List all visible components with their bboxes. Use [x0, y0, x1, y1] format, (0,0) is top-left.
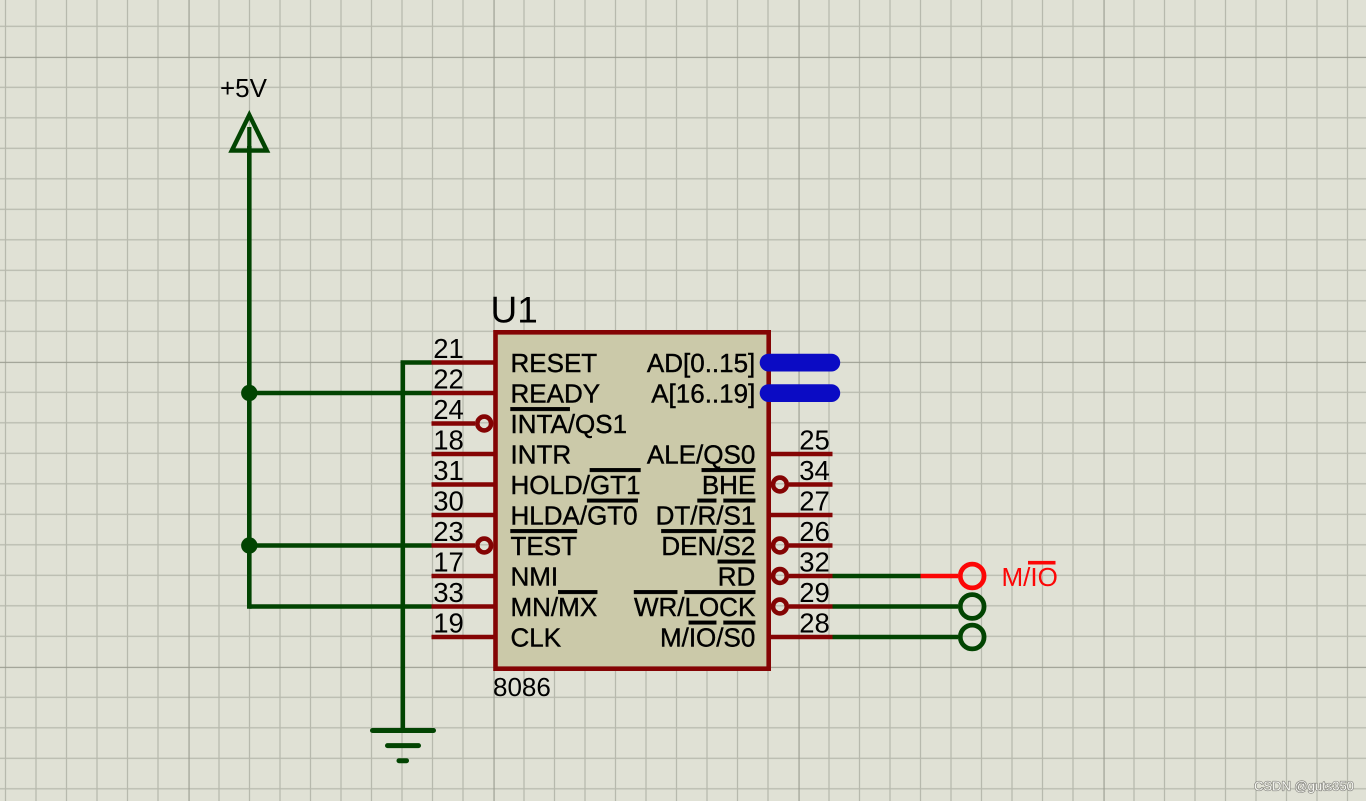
svg-text:MN/MX: MN/MX	[511, 592, 598, 622]
wire RD green segment	[833, 574, 921, 579]
svg-text:A[16..19]: A[16..19]	[651, 379, 755, 409]
pin 27 DT/R stub	[770, 513, 833, 518]
svg-text:30: 30	[433, 486, 464, 517]
terminal green ring pin 29	[960, 595, 984, 619]
svg-text:TEST: TEST	[511, 531, 578, 561]
svg-text:CLK: CLK	[511, 623, 562, 653]
svg-text:WR/LOCK: WR/LOCK	[634, 592, 756, 622]
svg-text:RESET: RESET	[511, 348, 598, 378]
svg-text:22: 22	[433, 364, 464, 395]
svg-text:24: 24	[433, 394, 464, 425]
svg-text:26: 26	[799, 516, 830, 547]
pin 34 BHE stub with bubble	[773, 478, 787, 492]
power +5V symbol	[232, 115, 267, 151]
ground	[373, 731, 434, 761]
pin 17 NMI stub	[432, 574, 495, 579]
svg-text:DT/R/S1: DT/R/S1	[656, 501, 756, 531]
svg-text:17: 17	[433, 547, 464, 578]
svg-text:HOLD/GT1: HOLD/GT1	[511, 470, 641, 500]
wire +5V vertical	[247, 146, 252, 609]
pin 24 INTA stub with bubble	[432, 421, 476, 426]
svg-text:M/IO/S0: M/IO/S0	[660, 623, 755, 653]
svg-text:23: 23	[433, 516, 464, 547]
svg-text:RD: RD	[718, 562, 756, 592]
svg-text:18: 18	[433, 425, 464, 456]
svg-text:34: 34	[799, 455, 830, 486]
pin 22 READY stub	[432, 391, 495, 396]
wire WR/LOCK green	[833, 604, 959, 609]
pin 30 HLDA stub	[432, 513, 495, 518]
pin 29 WR/LOCK stub with bubble	[773, 600, 787, 614]
svg-text:READY: READY	[511, 379, 601, 409]
wire M/IO/S0 green	[833, 635, 959, 640]
pin 31 HOLD stub	[432, 482, 495, 487]
pin 26 DEN stub with bubble	[773, 539, 787, 553]
svg-text:19: 19	[433, 608, 464, 639]
svg-text:HLDA/GT0: HLDA/GT0	[511, 501, 638, 531]
pin 33 MN/MX stub	[432, 604, 495, 609]
pin 23 TEST stub with bubble	[432, 543, 476, 548]
bus stub AD[0..15]	[760, 354, 841, 372]
svg-text:33: 33	[433, 577, 464, 608]
svg-text:27: 27	[799, 486, 830, 517]
wire to TEST pin 23	[249, 543, 431, 548]
pin 21 RESET stub	[432, 360, 495, 365]
wire RESET to ground vertical	[403, 363, 432, 731]
svg-text:25: 25	[799, 425, 830, 456]
chip U1 body 8086	[496, 332, 769, 668]
svg-text:21: 21	[433, 333, 464, 364]
terminal M/IO red ring	[960, 564, 984, 588]
pin 18 INTR stub	[432, 452, 495, 457]
svg-text:INTA/QS1: INTA/QS1	[511, 409, 628, 439]
svg-text:BHE: BHE	[702, 470, 755, 500]
svg-text:U1: U1	[491, 290, 538, 331]
wire to MN/MX pin 33	[249, 604, 431, 609]
svg-text:CSDN @guts350: CSDN @guts350	[1254, 779, 1354, 794]
pin 19 CLK stub	[432, 635, 495, 640]
pin 28 M/IO/S0 stub	[770, 635, 833, 640]
svg-text:M/IO: M/IO	[1002, 562, 1058, 592]
svg-text:INTR: INTR	[511, 440, 572, 470]
wire RD red segment	[921, 574, 959, 579]
pin 32 RD stub with bubble	[773, 569, 787, 583]
svg-text:+5V: +5V	[220, 73, 268, 103]
svg-text:DEN/S2: DEN/S2	[661, 531, 755, 561]
wire to READY pin 22	[249, 391, 431, 396]
bus stub A[16..19]	[760, 384, 841, 402]
svg-text:8086: 8086	[493, 672, 551, 702]
svg-text:AD[0..15]: AD[0..15]	[647, 348, 755, 378]
svg-text:29: 29	[799, 577, 830, 608]
svg-text:ALE/QS0: ALE/QS0	[647, 440, 755, 470]
svg-text:31: 31	[433, 455, 464, 486]
svg-text:32: 32	[799, 547, 830, 578]
junction at TEST	[241, 537, 257, 553]
terminal green ring pin 28	[960, 625, 984, 649]
svg-text:28: 28	[799, 608, 830, 639]
pin 25 ALE/QS0 stub	[770, 452, 833, 457]
svg-text:NMI: NMI	[511, 562, 559, 592]
junction at READY	[241, 385, 257, 401]
